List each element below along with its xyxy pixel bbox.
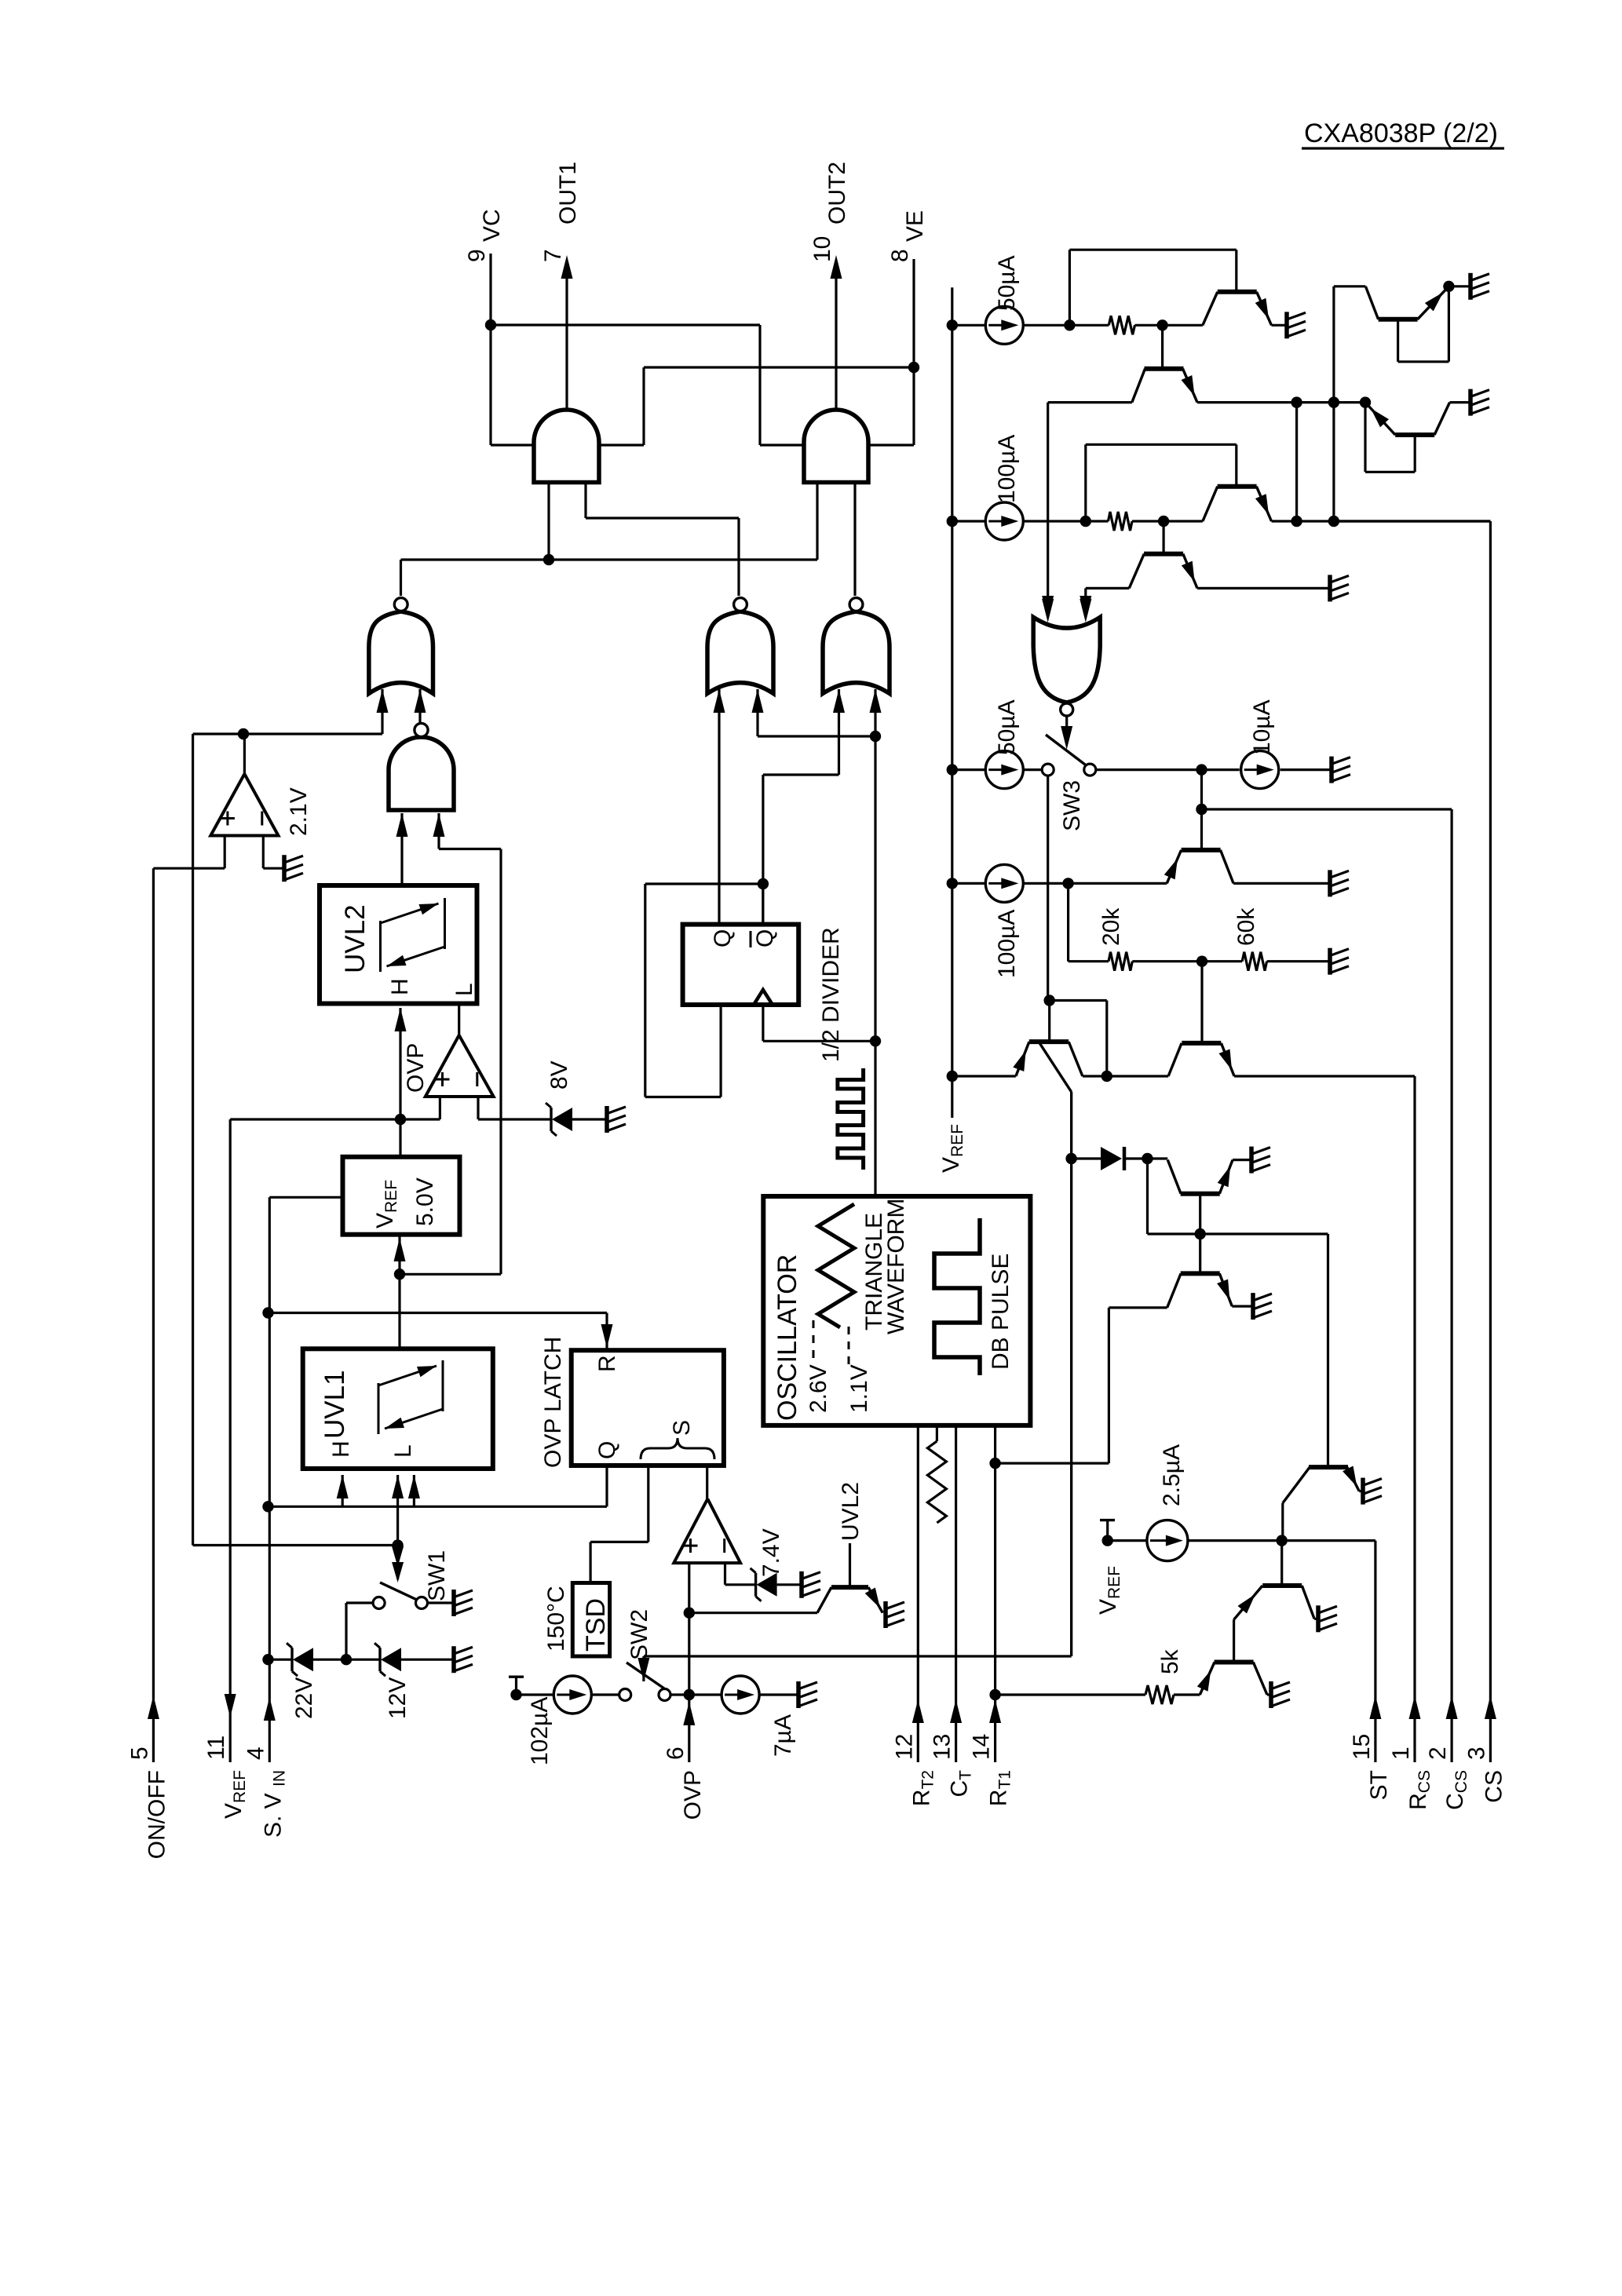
transistor Q7: [1182, 848, 1221, 852]
waveform glyph triangle: [818, 1204, 854, 1327]
svg-text:SW3: SW3: [1059, 780, 1085, 831]
wire - input to 7.4V zener: [724, 1563, 726, 1585]
pin 8 VE: [912, 259, 915, 445]
svg-text:H: H: [328, 1440, 354, 1458]
op-amp U9 OVP-pin comparator: [674, 1499, 740, 1564]
wire 2.1V comparator output to NOR1 input / node: [243, 732, 382, 735]
switch SW3: [1046, 735, 1088, 767]
wire Q8 second collector to SW2 control: [1070, 1092, 1072, 1656]
transistor Q5 diode-connected: [1379, 317, 1418, 322]
pin 13 CT: [955, 1425, 957, 1762]
wire comparator - input to ground: [262, 836, 265, 869]
svg-text:OSCILLATOR: OSCILLATOR: [773, 1254, 802, 1421]
current source I8 2.5uA: [1147, 1520, 1188, 1561]
svg-text:DB PULSE: DB PULSE: [988, 1254, 1014, 1370]
svg-text:9: 9: [464, 249, 490, 262]
transistor Q13: [1309, 1465, 1348, 1469]
wire row5 VREF-rail to Q8 emitter: [952, 1075, 1016, 1077]
pin 11 VREF: [229, 1119, 232, 1762]
svg-text:12V: 12V: [385, 1677, 411, 1719]
pin 15 ST: [1374, 1541, 1376, 1762]
wire NOR1 output rail y713: [401, 558, 818, 560]
ground: [1328, 575, 1332, 601]
block UVL1 with hysteresis: [303, 1349, 493, 1469]
wire AND1 right input to VE: [599, 444, 644, 446]
wire OVP comparator + input: [439, 1097, 441, 1119]
wire AND1 input A / node at y713: [547, 483, 550, 560]
current source I6 10uA: [1241, 751, 1279, 789]
block UVL2 with hysteresis: [320, 885, 477, 1004]
svg-text:SW2: SW2: [627, 1609, 652, 1660]
NOR gate U10 (SW3 driver): [1033, 617, 1100, 703]
transistor Q14 PNP: [1280, 1541, 1283, 1586]
brace S inputs: [641, 1438, 714, 1459]
svg-text:5: 5: [126, 1747, 152, 1760]
svg-text:OVP LATCH: OVP LATCH: [540, 1337, 566, 1468]
svg-text:UVL2: UVL2: [340, 904, 371, 973]
svg-text:8V: 8V: [546, 1060, 572, 1090]
wire NOR2/NOR3 common right inputs: [756, 689, 758, 736]
NOR gate U5: [823, 611, 890, 694]
svg-text:10µA: 10µA: [1249, 699, 1275, 755]
wire base rail to Q13 base: [1200, 1232, 1328, 1235]
input arrows NOR2: [714, 689, 725, 713]
svg-text:14: 14: [969, 1734, 995, 1760]
zener diode D3 12V: [378, 1648, 381, 1671]
ground: [1468, 389, 1473, 416]
svg-text:150°C: 150°C: [543, 1586, 569, 1652]
wire SW2 to pin6 node: [670, 1693, 721, 1696]
svg-text:L: L: [451, 983, 477, 996]
wire UVL1 H input: [337, 1475, 349, 1498]
wire S.VIN to OVP latch R input: [269, 1312, 608, 1314]
transistor Q10 UVL2 pulldown: [831, 1585, 868, 1590]
wire source to SW2: [591, 1693, 619, 1696]
ground: [796, 1681, 801, 1708]
ground: [605, 1106, 609, 1133]
wire RT1 to Q9 collector: [995, 1462, 1109, 1464]
svg-text:ST: ST: [1366, 1770, 1392, 1800]
svg-text:50µA: 50µA: [994, 699, 1020, 755]
svg-text:OUT2: OUT2: [824, 162, 850, 224]
resistor R3: [1109, 512, 1133, 531]
svg-text:12: 12: [891, 1734, 917, 1760]
ground: [799, 1571, 804, 1598]
zener diode D2 22V: [290, 1648, 293, 1671]
wire row2 to pin CS: [1272, 520, 1491, 522]
svg-text:R: R: [594, 1355, 620, 1372]
resistor R6 5k: [995, 1693, 1145, 1696]
svg-text:100µA: 100µA: [994, 435, 1020, 503]
wire U10 output to SW3: [1065, 716, 1068, 744]
wire UVL1 L input from latch Q: [408, 1475, 420, 1498]
svg-text:6: 6: [663, 1747, 689, 1760]
ground: [282, 855, 287, 882]
svg-text:UVL1: UVL1: [320, 1370, 350, 1439]
current source I2 7uA: [721, 1676, 759, 1714]
transistor Q1: [1218, 290, 1257, 294]
zener diode D1 8V: [550, 1108, 552, 1131]
ground: [1361, 1478, 1365, 1505]
transistor Q2: [1161, 325, 1164, 368]
NOR gate U3: [369, 611, 433, 694]
svg-text:TSD: TSD: [581, 1598, 611, 1652]
wire NOR1 output to AND2 input A: [816, 483, 818, 560]
svg-text:Q: Q: [710, 929, 736, 947]
pin 3 CS: [1334, 520, 1491, 522]
wire comparator output: [243, 734, 246, 774]
ground: [1269, 1681, 1273, 1708]
transistor Q9: [1182, 1041, 1221, 1046]
svg-text:S: S: [669, 1420, 695, 1436]
svg-text:7.4V: 7.4V: [758, 1528, 784, 1577]
svg-text:7: 7: [540, 249, 566, 262]
pin 6 OVP: [688, 1563, 690, 1762]
ground: [1316, 1605, 1321, 1632]
svg-text:WAVEFORM: WAVEFORM: [883, 1199, 909, 1334]
resistor R4 20k: [1109, 952, 1132, 971]
wire SW3 to 10uA node: [1096, 768, 1202, 771]
AND gate U1 (OUT1 driver): [534, 410, 599, 483]
block OSCILLATOR: [763, 1196, 1030, 1425]
svg-text:OVP: OVP: [680, 1770, 706, 1820]
svg-text:5k: 5k: [1157, 1648, 1183, 1674]
input arrows NOR3: [833, 689, 845, 713]
AND gate U2 (OUT2 driver): [804, 410, 868, 483]
pin 2 CCS: [1450, 809, 1452, 1762]
svg-text:CS: CS: [1481, 1770, 1507, 1803]
svg-text:22V: 22V: [291, 1677, 317, 1719]
block OVP LATCH (RS latch): [572, 1350, 724, 1466]
wire Q8 collector to Q9 collector: [1083, 1075, 1168, 1077]
svg-text:15: 15: [1349, 1734, 1375, 1760]
transistor Q3: [1218, 484, 1257, 489]
wire NOR2 output to AND1 input B: [584, 483, 586, 519]
ground: [1251, 1293, 1255, 1320]
svg-text:60k: 60k: [1233, 907, 1259, 946]
wire diode node to Q11/Q12 bases: [1146, 1159, 1149, 1234]
wire OVP comparator - input: [477, 1097, 479, 1119]
svg-text:Q: Q: [752, 929, 778, 947]
input arrows NOR1: [377, 689, 389, 713]
wire S.VIN clamp row: [269, 1659, 292, 1661]
pin 14 RT1: [994, 1425, 996, 1762]
diode D5: [1101, 1147, 1122, 1170]
op-amp U7 ON/OFF comparator 2.1V: [210, 774, 278, 836]
wire VC to AND1/AND2 power inputs: [491, 323, 760, 326]
net VREF rail: [951, 287, 953, 1118]
wire S.VIN supply rail: [269, 1196, 342, 1199]
svg-text:20k: 20k: [1098, 907, 1124, 946]
wire NAND output to NOR1 input: [418, 689, 421, 723]
current source I5 50uA: [952, 768, 986, 771]
wire Q10 collector to pin6 net: [689, 1612, 817, 1614]
svg-text:11: 11: [203, 1736, 229, 1760]
svg-text:L: L: [390, 1444, 416, 1458]
svg-text:13: 13: [930, 1734, 955, 1760]
svg-text:H: H: [387, 978, 413, 995]
zener diode D4 7.4V: [754, 1573, 757, 1597]
current source I7 100uA: [952, 882, 986, 885]
pin 12 RT2: [917, 1425, 919, 1762]
ground: [1284, 312, 1289, 338]
ground: [1328, 870, 1332, 896]
switch SW2: [627, 1663, 664, 1688]
pin 7 OUT1: [565, 267, 568, 410]
wire divider Qbar to NOR3 input: [838, 689, 840, 775]
transistor Q6 diode-connected: [1395, 433, 1434, 437]
svg-text:102µA: 102µA: [527, 1697, 553, 1765]
block VREF 5.0V regulator: [343, 1157, 460, 1235]
wire mirror feedback row2: [1084, 444, 1087, 521]
wire SW1 to zener node: [346, 1601, 373, 1604]
wire comparator output to SW1 control net: [193, 732, 243, 735]
waveform glyph DB pulse at divider: [838, 1068, 864, 1170]
current source I1 102uA: [553, 1676, 591, 1714]
resistor R5 60k: [1242, 952, 1266, 971]
wire 2.5uA to ST pin / node: [1188, 1539, 1375, 1542]
svg-text:VC: VC: [479, 209, 505, 242]
svg-text:2.6V: 2.6V: [806, 1364, 831, 1413]
resistor R1 (oscillator internal): [936, 1425, 938, 1441]
block TSD thermal shutdown 150C: [572, 1583, 609, 1657]
wire Q9 emitter to pin RCS: [1234, 1075, 1415, 1077]
wire OVP comparator output to UVL2 L: [458, 1004, 460, 1035]
ground: [883, 1601, 888, 1628]
wire 7.4V comparator to latch S input: [706, 1466, 708, 1499]
svg-text:2: 2: [1425, 1747, 1451, 1760]
ground: [1468, 273, 1473, 300]
transistor Q4: [1162, 521, 1164, 554]
ground: [451, 1646, 456, 1673]
svg-text:3: 3: [1463, 1747, 1489, 1760]
svg-text:VE: VE: [902, 210, 928, 242]
wire UVL2 output to NAND input A: [400, 813, 403, 885]
svg-text:100µA: 100µA: [994, 910, 1020, 978]
wire Q5 collector drop: [1332, 287, 1335, 521]
NAND gate U6: [389, 737, 454, 810]
transistor Q11: [1148, 1157, 1168, 1159]
wire to diode: [1072, 1157, 1101, 1159]
ground: [1329, 757, 1334, 783]
pin 4 S.VIN arrow: [264, 1697, 276, 1721]
wire Q2 collector to OR gate input: [1048, 401, 1132, 403]
svg-text:50µA: 50µA: [994, 255, 1020, 311]
svg-text:8: 8: [887, 249, 913, 262]
current source I4 100uA: [952, 520, 986, 522]
svg-text:10: 10: [809, 236, 835, 262]
pin 5 ON/OFF wire to comparator + input: [224, 836, 226, 869]
svg-text:4: 4: [243, 1747, 269, 1760]
svg-text:OVP: OVP: [403, 1043, 429, 1093]
ground: [1328, 948, 1332, 975]
svg-text:Q: Q: [594, 1441, 620, 1459]
wire VREF pin rail: [230, 1118, 440, 1120]
svg-text:2.5µA: 2.5µA: [1159, 1444, 1185, 1506]
transistor Q12: [1181, 1271, 1220, 1276]
op-amp U8 OVP comparator: [426, 1035, 494, 1097]
terminal VREF: [1106, 1520, 1109, 1541]
clock chevron: [754, 990, 773, 1005]
wire to pin 2 CCS: [1202, 808, 1452, 810]
wire NOR3 output to AND2 input B: [853, 483, 856, 597]
NOR gate U4: [707, 611, 773, 694]
svg-text:SW1: SW1: [424, 1550, 450, 1601]
pin 1 RCS: [1413, 1076, 1416, 1762]
wire SW2 control from T6 collector: [644, 1655, 1072, 1657]
wire Qbar output and feedback loop: [762, 884, 764, 925]
switch SW1: [392, 1562, 404, 1582]
wire Q4 emitter to ground: [1197, 587, 1328, 590]
wire row3 to Q7 base and pin CCS: [1200, 770, 1203, 850]
resistor R2: [1109, 316, 1134, 334]
waveform glyph DB PULSE: [934, 1218, 980, 1375]
pin 9 VC: [489, 254, 491, 445]
pin 10 OUT2: [835, 267, 837, 410]
wire VREF box bottom to UVL1 / node: [398, 1235, 400, 1349]
block 1/2 DIVIDER flip-flop: [683, 925, 799, 1005]
wire VREF-box sense to NAND input B: [437, 813, 440, 849]
svg-text:1.1V: 1.1V: [846, 1364, 872, 1413]
wire VREF net to UVL2 H input / node: [399, 1008, 401, 1157]
wire Q2 emitter rail: [1197, 401, 1364, 403]
svg-text:1: 1: [1388, 1747, 1414, 1760]
svg-text:OUT1: OUT1: [555, 162, 581, 224]
ground: [1249, 1147, 1254, 1174]
wire oscillator DB pulse output: [874, 1041, 876, 1196]
wire row4 to divider resistors: [1067, 883, 1069, 961]
wire SW3 to Q8 base node: [1047, 776, 1049, 1000]
wire TSD to latch S input: [647, 1466, 649, 1542]
transistor Q15 PNP: [1233, 1619, 1235, 1662]
svg-text:CXA8038P (2/2): CXA8038P (2/2): [1304, 119, 1498, 148]
svg-text:5.0V: 5.0V: [412, 1177, 438, 1226]
transistor Q8 dual-collector PNP: [1029, 1039, 1069, 1044]
wire OVP latch Q output: [605, 1466, 608, 1506]
wire mirror feedback row1: [1069, 250, 1071, 325]
wire divider Q to NOR2 input: [718, 689, 720, 925]
wire clock input from oscillator: [762, 1005, 764, 1041]
current source I3 50uA: [952, 324, 986, 327]
wire UVL1 L input from SW1 net: [392, 1475, 404, 1498]
svg-text:2.1V: 2.1V: [286, 787, 312, 836]
wire VREF to 2.5uA source: [1108, 1539, 1147, 1542]
svg-text:ON/OFF: ON/OFF: [144, 1770, 170, 1859]
wire Q4 collector to OR gate input: [1086, 587, 1129, 590]
svg-text:7µA: 7µA: [770, 1714, 796, 1757]
svg-text:UVL2: UVL2: [838, 1482, 864, 1541]
